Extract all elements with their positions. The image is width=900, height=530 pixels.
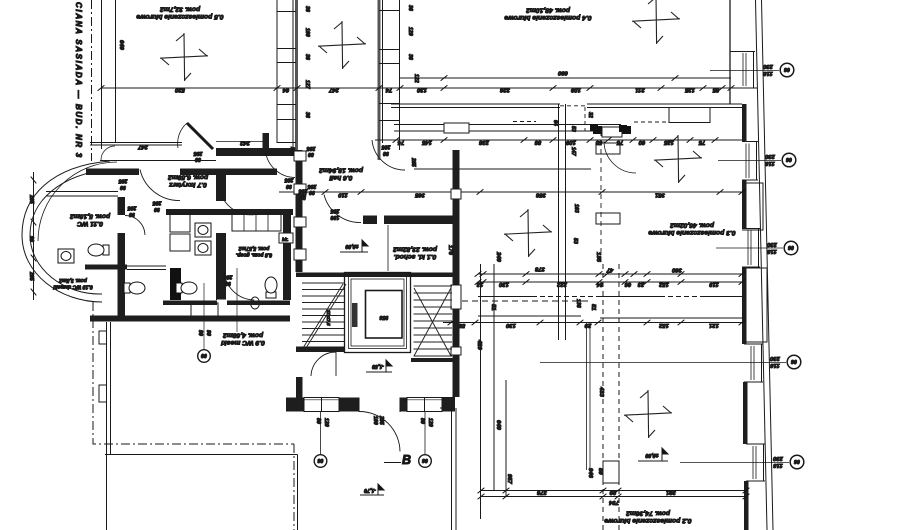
door label 80/205	[194, 150, 204, 162]
svg-text:205: 205	[128, 205, 138, 211]
black wall chunk	[170, 268, 181, 300]
hall left wall pilasters	[296, 150, 303, 272]
svg-text:109: 109	[565, 139, 576, 145]
svg-text:60: 60	[638, 139, 645, 145]
svg-text:53: 53	[572, 238, 578, 244]
svg-text:265: 265	[410, 157, 416, 167]
wall x585	[558, 104, 560, 340]
svg-text:205: 205	[307, 145, 317, 151]
room label 0.2	[604, 510, 691, 525]
svg-text:520: 520	[174, 87, 185, 93]
svg-text:99: 99	[609, 489, 616, 495]
room marker 0.5	[160, 33, 208, 81]
svg-text:36: 36	[304, 6, 310, 12]
elevator	[345, 273, 411, 353]
svg-text:116: 116	[767, 248, 777, 254]
svg-text:47: 47	[606, 267, 614, 273]
svg-text:pow. 74,36m2: pow. 74,36m2	[626, 510, 671, 517]
door swing 0.11 big	[38, 162, 117, 241]
svg-text:06: 06	[788, 244, 794, 250]
svg-text:53: 53	[570, 126, 576, 132]
room marker 0.4	[632, 0, 680, 44]
svg-text:946: 946	[587, 468, 593, 479]
svg-text:90: 90	[286, 183, 292, 189]
svg-text:13: 13	[476, 281, 483, 287]
svg-text:29: 29	[584, 322, 592, 328]
svg-text:06: 06	[422, 457, 428, 463]
strip2 mini dims	[407, 5, 413, 11]
wall y265	[85, 265, 127, 270]
svg-text:120: 120	[323, 418, 329, 427]
grid leader right	[424, 412, 426, 454]
svg-text:130: 130	[498, 281, 509, 287]
svg-text:06: 06	[791, 358, 797, 364]
svg-text:176: 176	[447, 245, 453, 256]
svg-text:222: 222	[556, 281, 568, 287]
svg-text:130: 130	[505, 322, 516, 328]
svg-text:66: 66	[624, 281, 631, 287]
door labels hall	[307, 145, 317, 157]
WC labels	[70, 213, 111, 228]
chimney bump 1	[742, 183, 763, 230]
right stair flight	[414, 286, 453, 356]
svg-text:36: 36	[407, 5, 413, 11]
sinks pair	[195, 223, 211, 237]
svg-text:90: 90	[154, 206, 160, 212]
svg-text:0.10 WC damski: 0.10 WC damski	[53, 284, 93, 290]
svg-text:121: 121	[709, 322, 719, 328]
right wall main	[742, 104, 747, 141]
svg-text:17x17,5: 17x17,5	[326, 310, 331, 326]
svg-text:64: 64	[596, 281, 603, 287]
svg-text:249: 249	[495, 251, 501, 263]
room marker hall	[504, 209, 552, 257]
svg-text:36: 36	[407, 54, 413, 60]
window bay 1	[710, 52, 779, 89]
svg-text:152: 152	[658, 322, 669, 328]
svg-text:205: 205	[378, 415, 384, 425]
svg-text:116: 116	[773, 462, 783, 468]
svg-text:957: 957	[506, 474, 512, 485]
svg-text:51: 51	[490, 304, 496, 311]
svg-text:205: 205	[382, 144, 392, 150]
svg-text:0.1 kl. schod.: 0.1 kl. schod.	[394, 253, 437, 260]
svg-text:51: 51	[590, 304, 596, 311]
svg-text:119: 119	[709, 281, 719, 287]
svg-text:-1,50: -1,50	[372, 363, 384, 369]
svg-text:74: 74	[397, 139, 404, 145]
svg-text:90: 90	[120, 184, 126, 190]
room labels mid	[168, 174, 209, 189]
svg-text:211: 211	[635, 87, 645, 93]
window bay 3	[716, 229, 783, 268]
wall x451 bottom	[451, 408, 453, 530]
room marker 0.3	[654, 135, 702, 183]
svg-text:06: 06	[786, 156, 792, 162]
svg-text:351: 351	[655, 192, 665, 198]
svg-text:378: 378	[534, 266, 545, 272]
svg-text:136: 136	[575, 299, 581, 308]
svg-text:163: 163	[573, 204, 579, 213]
svg-text:247: 247	[137, 144, 149, 150]
svg-text:06: 06	[794, 458, 800, 464]
svg-text:90: 90	[197, 330, 203, 336]
svg-text:88: 88	[534, 139, 541, 145]
svg-text:230: 230	[764, 153, 776, 159]
bottom dim chains	[480, 490, 746, 492]
dashed line y316	[452, 300, 590, 302]
room marker 0.2	[624, 390, 672, 438]
svg-text:100: 100	[372, 416, 378, 425]
wall y296	[478, 296, 742, 298]
terrace wall	[105, 455, 298, 530]
left stair flight	[302, 283, 346, 348]
vertical mini dims wall A	[552, 120, 558, 126]
svg-text:110: 110	[338, 192, 348, 198]
hall right wall	[453, 150, 460, 397]
svg-text:B: B	[402, 453, 411, 467]
svg-text:90: 90	[205, 330, 211, 336]
wall y316 band	[90, 316, 290, 322]
grid leader left	[320, 412, 322, 454]
svg-text:242: 242	[239, 140, 251, 146]
svg-text:bk.: bk.	[282, 237, 289, 242]
svg-text:376: 376	[536, 489, 547, 495]
chain wall y192	[279, 191, 742, 193]
svg-text:pow. 4,68m2: pow. 4,68m2	[223, 332, 264, 339]
svg-text:649: 649	[118, 40, 124, 51]
door labels cluster	[153, 200, 163, 213]
wall room 0.5 bottom	[90, 143, 182, 146]
sink wc11	[58, 249, 74, 263]
chain y323	[443, 322, 742, 324]
svg-text:136: 136	[595, 252, 601, 263]
svg-text:64: 64	[552, 120, 558, 126]
svg-text:205: 205	[299, 188, 309, 194]
svg-text:36: 36	[304, 54, 310, 60]
chain y140	[375, 139, 742, 141]
svg-text:pow. 32,7m2: pow. 32,7m2	[160, 6, 201, 13]
room label 0.4	[504, 7, 591, 22]
svg-text:433: 433	[598, 386, 604, 398]
window bay 2	[718, 142, 781, 181]
black jambs	[590, 124, 598, 131]
svg-text:59: 59	[597, 468, 603, 475]
svg-text:74: 74	[385, 87, 392, 93]
pilaster zigzag below 0.4	[394, 125, 621, 132]
svg-text:64: 64	[282, 87, 289, 93]
property dashdot bottom	[93, 302, 294, 530]
svg-text:238: 238	[478, 139, 490, 145]
main dimension chain y88	[101, 87, 757, 89]
property dash-dot line top	[91, 0, 93, 161]
svg-text:205: 205	[153, 200, 163, 206]
svg-text:116: 116	[770, 362, 780, 368]
west wall	[106, 322, 108, 530]
cupboards 0.8	[232, 213, 281, 231]
svg-text:116: 116	[763, 70, 773, 76]
svg-text:247: 247	[328, 87, 340, 93]
svg-text:0.7 korytarz: 0.7 korytarz	[169, 181, 207, 188]
stair door arc	[311, 352, 336, 376]
svg-text:±0,00: ±0,00	[345, 243, 358, 249]
svg-text:pow. 23,82m2: pow. 23,82m2	[393, 246, 438, 253]
svg-text:90: 90	[300, 194, 306, 200]
svg-text:152: 152	[658, 281, 669, 287]
dashed beams room 0.2	[602, 264, 604, 530]
vertical dim lines bottom	[586, 322, 588, 470]
svg-text:230: 230	[772, 455, 784, 461]
svg-text:pow. 5,57m2: pow. 5,57m2	[239, 245, 271, 251]
chimney bump 2	[742, 268, 767, 342]
svg-text:09: 09	[201, 352, 207, 358]
svg-text:pow. 5,16m2: pow. 5,16m2	[70, 213, 111, 220]
svg-text:690: 690	[557, 70, 568, 76]
svg-text:36: 36	[304, 112, 310, 118]
pilasters x596	[596, 143, 620, 154]
level marker 0.00 room 0.2	[638, 448, 668, 461]
svg-text:116: 116	[765, 160, 775, 166]
svg-text:0.11 WC: 0.11 WC	[77, 220, 103, 227]
wall 0.4 bottom	[391, 104, 742, 108]
level marker -1.50	[366, 360, 392, 372]
bottom wall band left segment	[286, 398, 359, 412]
svg-text:0.5 pomieszczenie biurowe: 0.5 pomieszczenie biurowe	[136, 13, 223, 20]
stair top wall	[296, 273, 455, 278]
svg-text:0.3 pomieszczenie biurowe: 0.3 pomieszczenie biurowe	[648, 229, 735, 236]
svg-text:326: 326	[499, 87, 510, 93]
svg-text:120: 120	[427, 418, 433, 427]
wall room 0.5 left	[101, 0, 103, 149]
svg-text:794: 794	[608, 499, 619, 505]
svg-text:360: 360	[671, 267, 682, 273]
svg-text:80: 80	[419, 418, 425, 424]
shaft boxes	[170, 214, 190, 232]
svg-text:145: 145	[421, 139, 432, 145]
bottom wall band right segment	[400, 398, 455, 412]
svg-text:80: 80	[315, 418, 321, 424]
svg-text:pow. 6,59m2: pow. 6,59m2	[168, 174, 209, 181]
svg-text:32: 32	[587, 112, 593, 118]
grid circle 09	[203, 283, 205, 349]
svg-text:pow. 18,94m2: pow. 18,94m2	[319, 167, 364, 174]
level marker 0.00 hall	[340, 240, 368, 252]
svg-text:230: 230	[769, 355, 781, 361]
svg-text:0.2 pomieszczenie biurowe: 0.2 pomieszczenie biurowe	[604, 517, 691, 524]
wall y300	[163, 301, 290, 306]
svg-text:pow. 3,5m2: pow. 3,5m2	[59, 277, 88, 283]
left edge dim chain	[33, 172, 35, 300]
svg-text:130: 130	[416, 87, 427, 93]
svg-text:365: 365	[414, 192, 425, 198]
stairwell north wall	[363, 216, 377, 225]
exterior door arc	[360, 412, 401, 452]
svg-text:0.4 pomieszczenie biurowe: 0.4 pomieszczenie biurowe	[504, 14, 591, 21]
svg-text:205: 205	[28, 271, 34, 281]
svg-text:125: 125	[684, 87, 695, 93]
svg-text:0.6 hall: 0.6 hall	[329, 174, 352, 181]
svg-text:0.9 WC meski: 0.9 WC meski	[221, 339, 265, 346]
room marker mid strip	[318, 21, 366, 69]
facade slant lines	[756, 0, 768, 530]
svg-text:90: 90	[383, 150, 389, 156]
svg-text:129: 129	[407, 27, 413, 36]
window bay 4	[540, 344, 786, 382]
svg-text:147: 147	[570, 147, 576, 157]
urinal	[251, 297, 260, 309]
svg-text:pow. 46,02m2: pow. 46,02m2	[670, 222, 715, 229]
svg-text:0.8 pom. gosp.: 0.8 pom. gosp.	[236, 252, 272, 258]
svg-text:90: 90	[28, 236, 34, 242]
hall north line	[414, 168, 591, 170]
svg-text:205: 205	[308, 183, 318, 189]
total dim 690	[400, 77, 731, 79]
level marker -1.70	[360, 484, 384, 495]
svg-text:pow. 48,10m2: pow. 48,10m2	[526, 7, 571, 14]
svg-text:75: 75	[698, 139, 705, 145]
svg-text:649: 649	[495, 420, 501, 431]
svg-text:06: 06	[318, 457, 324, 463]
hall door arcs	[266, 151, 296, 178]
svg-text:100: 100	[304, 28, 310, 37]
toilets	[88, 244, 109, 256]
window strip 2	[378, 0, 381, 160]
svg-text:109: 109	[570, 87, 581, 93]
room label 0.5	[136, 6, 223, 21]
svg-text:205: 205	[28, 194, 34, 204]
strip1 mini dims	[304, 6, 310, 12]
svg-text:356: 356	[535, 192, 546, 198]
room label 0.3	[648, 222, 735, 237]
outer curved wall	[22, 161, 110, 302]
svg-text:205: 205	[194, 150, 204, 156]
stair bottom wall	[296, 347, 345, 353]
svg-text:-1,70: -1,70	[364, 487, 376, 493]
svg-text:125: 125	[663, 139, 674, 145]
svg-text:CIANA SASIADA — BUD. NR 3: CIANA SASIADA — BUD. NR 3	[74, 2, 83, 158]
window bay 5	[680, 444, 789, 481]
svg-text:205: 205	[119, 178, 129, 184]
svg-text:06: 06	[784, 66, 790, 72]
korytarz walls	[86, 169, 139, 176]
svg-text:85: 85	[712, 87, 719, 93]
wall 0.4 right	[729, 0, 731, 104]
svg-text:23: 23	[637, 281, 645, 287]
leader 0.9	[236, 268, 238, 332]
svg-text:391: 391	[666, 489, 676, 495]
chain y274	[478, 273, 742, 275]
door 0.5 leaf	[187, 123, 213, 149]
svg-text:230: 230	[762, 63, 774, 69]
window strip 1	[276, 0, 278, 143]
svg-text:429: 429	[476, 339, 482, 351]
svg-text:230: 230	[766, 241, 778, 247]
svg-text:±0,00: ±0,00	[645, 452, 658, 458]
svg-text:956: 956	[380, 314, 389, 320]
